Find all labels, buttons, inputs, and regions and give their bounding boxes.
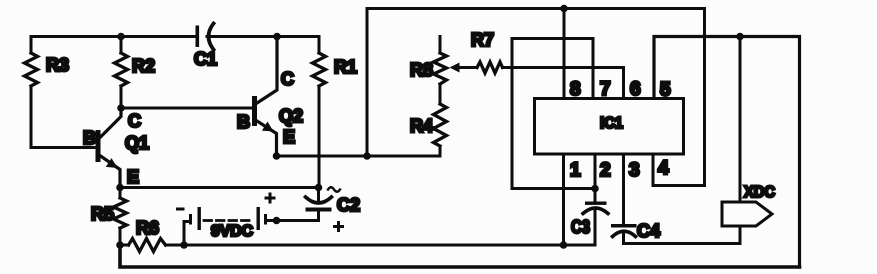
wire C4 to XDC bottom — [624, 226, 741, 244]
svg-text:Q2: Q2 — [279, 106, 303, 126]
junction pin 8 top — [560, 5, 568, 13]
junction XDC top — [736, 33, 744, 41]
junction Q1 collector — [117, 104, 125, 112]
svg-text:C: C — [128, 111, 141, 131]
IC1 body — [535, 99, 684, 155]
potentiometer R8 — [439, 37, 442, 54]
pin 8 lead — [563, 9, 566, 98]
wire Q1 emitter to C2 top — [120, 186, 319, 189]
svg-text:2: 2 — [600, 160, 611, 181]
svg-text:C1: C1 — [194, 49, 217, 69]
wire top-left rail left segment — [31, 35, 196, 38]
svg-text:5: 5 — [660, 80, 671, 101]
svg-text:R4: R4 — [410, 116, 433, 136]
transducer XDC — [722, 202, 772, 226]
svg-text:8: 8 — [570, 79, 581, 100]
junction battery plus — [273, 217, 281, 225]
resistor R6 — [120, 244, 129, 247]
svg-text:R3: R3 — [46, 55, 69, 75]
resistor R2 — [120, 37, 123, 54]
svg-text:B: B — [83, 128, 96, 148]
svg-text:3: 3 — [629, 160, 640, 181]
transistor Q2 — [252, 96, 257, 126]
resistor R4 — [434, 104, 447, 146]
svg-text:C2: C2 — [337, 195, 360, 215]
svg-text:R7: R7 — [471, 30, 494, 50]
svg-text:R8: R8 — [410, 60, 433, 80]
junction R5 bottom — [116, 241, 124, 249]
wire pin 4 to top rail — [653, 9, 705, 186]
wire bottom battery rail — [166, 244, 596, 247]
svg-text:R5: R5 — [91, 204, 114, 224]
resistor R7 wiper arrow — [450, 63, 460, 73]
wire mid vertical rail — [366, 9, 369, 157]
svg-text:B: B — [237, 112, 250, 132]
resistor R1 — [318, 37, 321, 54]
battery 9VDC — [184, 222, 190, 246]
svg-text:E: E — [127, 167, 139, 187]
capacitor C2 — [317, 188, 320, 201]
svg-text:E: E — [283, 127, 295, 147]
capacitor C3 — [594, 155, 597, 202]
wire R7 to pin 6 — [503, 68, 624, 98]
junction Q2 collector top — [273, 33, 281, 41]
junction battery minus lead — [180, 241, 188, 249]
transistor Q1 — [96, 130, 101, 162]
svg-text:C: C — [281, 69, 294, 89]
wire pin 7 loop to pin 2 — [512, 39, 595, 189]
junction pin 1 bottom — [560, 241, 568, 249]
svg-text:1: 1 — [570, 160, 581, 181]
junction mid rail — [363, 152, 371, 160]
junction pin 2 node — [591, 185, 599, 193]
battery minus sign — [176, 208, 185, 211]
capacitor C1 — [196, 26, 200, 48]
battery plus sign — [265, 197, 276, 200]
svg-text:R6: R6 — [136, 218, 159, 238]
wire Q1 base — [31, 146, 96, 149]
wire top-left rail right segment — [207, 35, 319, 38]
label C2 plus — [333, 225, 344, 228]
svg-text:R2: R2 — [132, 56, 155, 76]
svg-text:6: 6 — [630, 79, 641, 100]
svg-text:9VDC: 9VDC — [211, 223, 253, 240]
svg-text:R1: R1 — [334, 57, 357, 77]
resistor R5 — [119, 188, 122, 199]
resistor R7 — [458, 66, 477, 69]
junction Q1 emitter — [116, 184, 124, 192]
label C2 tilde — [328, 187, 340, 192]
capacitor C4 and pin 3 lead — [622, 155, 625, 225]
svg-text:IC1: IC1 — [600, 115, 623, 132]
svg-text:C4: C4 — [637, 221, 660, 241]
resistor R3 — [30, 37, 33, 54]
svg-text:Q1: Q1 — [125, 133, 149, 153]
wire Q2 emitter to R4 — [277, 146, 441, 156]
wire bottom ground rail — [120, 245, 800, 267]
svg-text:4: 4 — [658, 158, 669, 179]
svg-text:C3: C3 — [571, 217, 590, 237]
wire top rail — [367, 7, 705, 10]
pin 1 lead — [562, 155, 565, 246]
junction R2 top — [117, 33, 125, 41]
wire Q1 collector to Q2 base — [121, 107, 253, 110]
wire battery plus to C2 bottom — [277, 212, 319, 221]
junction Q2 emitter node — [273, 152, 281, 160]
junction C2 top — [315, 184, 323, 192]
svg-text:7: 7 — [600, 79, 611, 100]
wire pin 5 to right rail — [654, 37, 800, 268]
wire XDC top drop — [739, 37, 742, 203]
svg-text:XDC: XDC — [744, 184, 775, 201]
